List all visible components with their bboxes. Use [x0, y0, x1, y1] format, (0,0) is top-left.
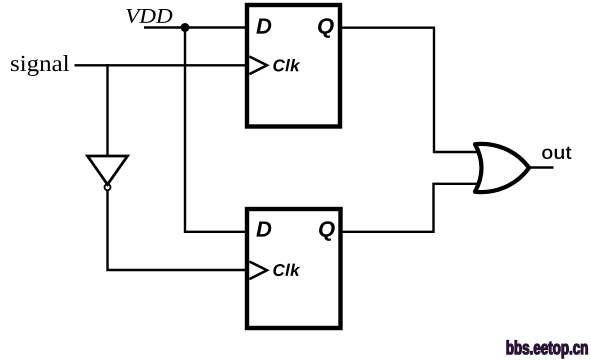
U2 clk edge triangle — [249, 262, 267, 280]
U2 pin label Q — [319, 221, 335, 241]
U1 pin label D — [256, 18, 271, 33]
wire OR gate output — [529, 166, 554, 168]
or-gate U4 — [475, 144, 529, 192]
wire signal horizontal to U1 clk input — [75, 64, 250, 66]
junction dot VDD node — [181, 23, 190, 32]
U1 pin label Clk — [273, 59, 300, 71]
wire U2 Q to OR gate bottom input — [343, 184, 478, 232]
U1 pin label Q — [318, 18, 334, 38]
node out label — [542, 147, 571, 159]
flip-flop U2 box — [247, 209, 341, 328]
node signal label — [11, 55, 69, 76]
net VDD label — [126, 9, 172, 23]
wire VDD down to U2 D input — [185, 28, 245, 232]
inverter U3 triangle — [88, 156, 128, 185]
flip-flop U1 box — [247, 5, 340, 127]
U2 pin label D — [256, 221, 271, 236]
wire U1 Q to OR gate top input — [342, 28, 477, 152]
watermark bbs.eetop.cn — [507, 340, 588, 358]
inverter U3 bubble — [105, 184, 111, 190]
U2 pin label Clk — [273, 264, 300, 276]
wire VDD horizontal to U1 D input — [144, 26, 245, 28]
U1 clk edge triangle — [249, 57, 267, 75]
wire signal branch down to inverter input — [106, 64, 108, 156]
wire inverter output to U2 clk input — [108, 190, 250, 270]
